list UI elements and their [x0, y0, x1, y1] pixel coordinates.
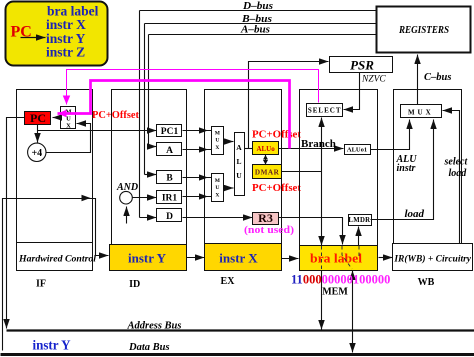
svg-text:WB: WB: [418, 277, 435, 288]
dashed address path inside memory: [321, 246, 323, 270]
mux2 EX: [212, 174, 224, 202]
wire D-bus to D: [140, 217, 157, 219]
svg-text:PC+Offset: PC+Offset: [252, 130, 302, 141]
wire mux2 to ALU: [224, 187, 234, 189]
svg-text:U: U: [215, 138, 219, 144]
AND gate circle: [120, 191, 133, 204]
wire R3 to memory: [279, 218, 343, 245]
incrementer +4: [28, 143, 46, 161]
wire A to mux1: [183, 149, 212, 151]
A-bus vertical into ID: [148, 35, 150, 147]
svg-text:MUX: MUX: [408, 109, 434, 117]
legend PC arrow: [21, 37, 46, 39]
dashed load path inside memory: [358, 246, 360, 256]
legend box: [6, 2, 108, 66]
SELECT box: [307, 104, 343, 117]
svg-text:load: load: [405, 208, 425, 220]
svg-text:PC+Offset: PC+Offset: [92, 110, 140, 121]
svg-text:instr Z: instr Z: [46, 45, 85, 60]
svg-text:U: U: [66, 116, 71, 123]
register PC: [25, 112, 51, 125]
magenta select wire: [67, 70, 319, 105]
IF stage box: [17, 90, 93, 271]
wire PSR to SELECT: [344, 73, 360, 110]
wire DMAR to branch line: [282, 171, 322, 173]
svg-text:Hardwired Control: Hardwired Control: [18, 254, 96, 265]
svg-text:load: load: [449, 168, 468, 179]
register R3: [253, 213, 279, 225]
register LMDR: [349, 215, 372, 226]
register D: [157, 209, 182, 222]
svg-text:instr Y: instr Y: [33, 338, 71, 353]
svg-text:IF: IF: [36, 279, 46, 290]
svg-text:PSR: PSR: [350, 58, 374, 73]
hardwired control divider: [17, 242, 93, 244]
IR(WB) box: [393, 244, 473, 271]
wire IR1 to mux2: [183, 196, 212, 198]
wire instruction from data bus: [3, 199, 109, 351]
svg-text:+4: +4: [31, 148, 42, 159]
svg-text:instr X: instr X: [46, 17, 86, 32]
ALU box: [235, 133, 245, 196]
svg-text:IR(WB) + Circuitry: IR(WB) + Circuitry: [393, 254, 471, 265]
register ALUo1: [345, 145, 371, 155]
register PC1: [157, 125, 182, 137]
svg-text:M: M: [215, 131, 221, 137]
register DMAR: [253, 165, 282, 179]
svg-text:L: L: [236, 157, 241, 166]
svg-text:ID: ID: [129, 279, 140, 290]
svg-text:PC: PC: [30, 111, 46, 125]
B-bus vertical into ID: [144, 24, 146, 175]
register A: [157, 143, 182, 156]
svg-text:A: A: [236, 143, 242, 152]
wire PC1 to mux1: [183, 130, 212, 132]
svg-text:NZVC: NZVC: [361, 75, 386, 85]
address bus: [7, 329, 474, 331]
data bus: [1, 353, 474, 356]
wire memory to data bus: [352, 271, 354, 353]
svg-text:U: U: [215, 185, 219, 191]
svg-text:SELECT: SELECT: [308, 107, 342, 115]
double arrow ALUo DMAR: [265, 155, 267, 165]
B-bus line: [145, 23, 377, 25]
PSR box: [330, 57, 393, 73]
ID stage box: [112, 90, 187, 271]
svg-text:PC+Offset: PC+Offset: [252, 183, 302, 194]
svg-text:MEM: MEM: [322, 287, 348, 298]
svg-text:X: X: [215, 145, 219, 151]
svg-text:X: X: [66, 123, 71, 130]
wire B to mux2: [183, 177, 212, 179]
wire PC+4 to PC1: [38, 130, 157, 132]
mux WB: [401, 105, 442, 118]
svg-text:X: X: [215, 192, 219, 198]
svg-text:EX: EX: [221, 276, 236, 287]
D-bus vertical into ID: [139, 11, 141, 218]
wire memory to address bus: [321, 271, 323, 330]
svg-text:instr Y: instr Y: [128, 251, 167, 266]
WB stage box: [394, 90, 462, 271]
svg-text:Branch: Branch: [301, 138, 336, 150]
svg-text:Address Bus: Address Bus: [127, 321, 182, 332]
svg-text:PC1: PC1: [161, 127, 179, 137]
wire LMDR to WB mux: [371, 120, 434, 220]
svg-text:IR1: IR1: [162, 194, 178, 204]
wire AND to IR1: [133, 197, 157, 199]
wire ALU to PSR: [249, 62, 329, 149]
svg-text:bra label: bra label: [310, 251, 362, 266]
wire A-bus to A: [149, 146, 157, 148]
mux IF: [61, 107, 76, 129]
svg-text:instr: instr: [397, 163, 416, 174]
wire B-bus to B: [145, 174, 157, 176]
wire memory to LMDR: [358, 227, 360, 246]
dashed store path inside memory: [342, 246, 352, 269]
register ALUo: [253, 142, 279, 155]
register B: [157, 171, 182, 184]
instr X box EX: [205, 244, 282, 271]
wire ALUo to ALUo1: [279, 148, 344, 150]
svg-text:M: M: [215, 178, 221, 184]
wire select from IR(WB): [443, 111, 460, 244]
svg-text:B–bus: B–bus: [241, 14, 272, 25]
MEM stage box: [300, 90, 378, 271]
svg-text:C–bus: C–bus: [424, 72, 451, 83]
A-bus line: [149, 34, 377, 36]
svg-text:Data Bus: Data Bus: [128, 342, 170, 353]
svg-text:A: A: [166, 146, 173, 156]
C-bus wire: [417, 55, 419, 105]
wire PC to address bus: [7, 118, 25, 329]
wire instr X to memory: [282, 258, 299, 260]
magenta PC+Offset wire: [58, 81, 290, 149]
svg-text:REGISTERS: REGISTERS: [398, 25, 449, 36]
mux1 EX: [212, 127, 224, 155]
svg-text:D: D: [166, 212, 173, 222]
wire mux to PC: [53, 117, 61, 119]
branch wire: [321, 118, 323, 246]
svg-text:ALUo: ALUo: [256, 145, 275, 153]
wire +4 to mux: [47, 124, 91, 153]
memory box bra label: [300, 246, 378, 271]
arrowhead into IF: [82, 195, 91, 201]
svg-text:select: select: [444, 157, 469, 168]
wire D to R3: [183, 217, 253, 219]
wire PC down to +4: [37, 125, 39, 143]
svg-text:1100000000100000: 1100000000100000: [291, 273, 390, 287]
instr Y box ID: [110, 245, 187, 271]
REGISTERS box: [377, 7, 471, 53]
svg-text:LMDR: LMDR: [348, 217, 370, 224]
wire ALUo1 to WB mux: [371, 120, 410, 150]
EX stage box: [205, 90, 282, 271]
wire mux1 to ALU: [224, 141, 234, 143]
svg-text:U: U: [236, 171, 242, 180]
svg-text:instr X: instr X: [219, 251, 258, 266]
wire instr Y to instr X: [187, 257, 205, 259]
svg-text:(not used): (not used): [244, 224, 294, 236]
D-bus line: [140, 10, 377, 12]
svg-text:ALUo1: ALUo1: [347, 147, 367, 154]
svg-text:D–bus: D–bus: [242, 1, 273, 12]
wire into AND gate: [126, 207, 128, 224]
register IR1: [157, 191, 182, 204]
svg-text:A–bus: A–bus: [240, 25, 270, 36]
wire ALU to ALUo: [245, 148, 253, 150]
wire memory to IR(WB): [379, 257, 393, 259]
svg-text:DMAR: DMAR: [255, 169, 280, 177]
svg-text:B: B: [166, 174, 173, 184]
